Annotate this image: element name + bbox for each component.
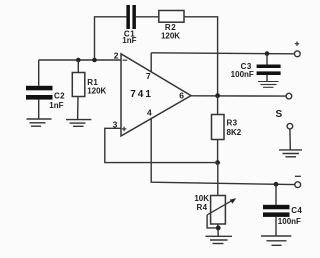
svg-text:C4: C4 xyxy=(291,206,302,215)
wire pin 7 to V+ rail xyxy=(150,53,152,72)
svg-text:C2: C2 xyxy=(54,92,65,101)
svg-text:R1: R1 xyxy=(87,78,98,87)
resistor R1 xyxy=(72,60,106,120)
minus symbol at pin 2 xyxy=(123,59,128,61)
wire R2 to corner and vertical feedback down to output node xyxy=(184,17,218,96)
node junction C4 top xyxy=(274,182,279,187)
potentiometer R4 xyxy=(194,163,236,237)
wire inverting input (pin 2) horizontal xyxy=(39,59,121,61)
capacitor C4 xyxy=(263,184,302,236)
svg-text:1nF: 1nF xyxy=(49,101,63,110)
resistor R3 xyxy=(212,96,242,163)
svg-text:100nF: 100nF xyxy=(231,70,254,79)
svg-text:S: S xyxy=(275,109,282,120)
ground under S terminal xyxy=(279,150,302,157)
svg-text:2: 2 xyxy=(114,51,119,61)
node junction feedback / pin 2 xyxy=(92,58,97,63)
terminal + supply xyxy=(294,42,300,57)
wire pin 3 net xyxy=(105,128,218,162)
svg-text:100nF: 100nF xyxy=(278,217,301,226)
capacitor C1 xyxy=(122,5,136,45)
svg-text:4: 4 xyxy=(147,108,152,118)
svg-text:7: 7 xyxy=(146,71,151,81)
terminal - supply xyxy=(295,176,301,187)
ground under C3 xyxy=(258,82,279,88)
wire output pin 6 xyxy=(191,95,286,97)
resistor R2 xyxy=(159,11,184,41)
ground under C4 xyxy=(261,236,291,245)
ground under R1 xyxy=(66,120,91,127)
svg-text:120K: 120K xyxy=(161,31,180,40)
wire between C1 and R2 xyxy=(136,16,159,18)
wire V+ rail to + terminal xyxy=(151,53,294,54)
plus symbol at pin 3 xyxy=(122,128,127,130)
node junction output xyxy=(215,93,220,98)
capacitor C2 xyxy=(26,60,65,119)
svg-text:R4: R4 xyxy=(196,203,207,212)
node junction R4 bottom xyxy=(216,226,221,231)
node junction R3/R4/pin3 xyxy=(215,160,220,165)
svg-text:10K: 10K xyxy=(194,194,209,203)
svg-text:6: 6 xyxy=(179,90,184,100)
terminal S ground jack xyxy=(287,123,293,149)
svg-text:1nF: 1nF xyxy=(122,36,136,45)
node junction R1 top xyxy=(76,58,81,63)
svg-text:8K2: 8K2 xyxy=(227,128,242,137)
node junction C3 top xyxy=(265,51,270,56)
ground under C2 xyxy=(27,119,52,126)
terminal S output xyxy=(286,93,292,99)
svg-text:741: 741 xyxy=(130,89,153,100)
op-amp U1 741 triangle xyxy=(113,51,191,137)
capacitor C3 xyxy=(231,54,281,82)
svg-text:120K: 120K xyxy=(87,87,106,96)
ground under R4 xyxy=(206,236,233,243)
svg-text:R3: R3 xyxy=(227,119,238,128)
wire pin 4 to negative rail xyxy=(151,118,295,185)
wire feedback top rail xyxy=(95,17,127,60)
